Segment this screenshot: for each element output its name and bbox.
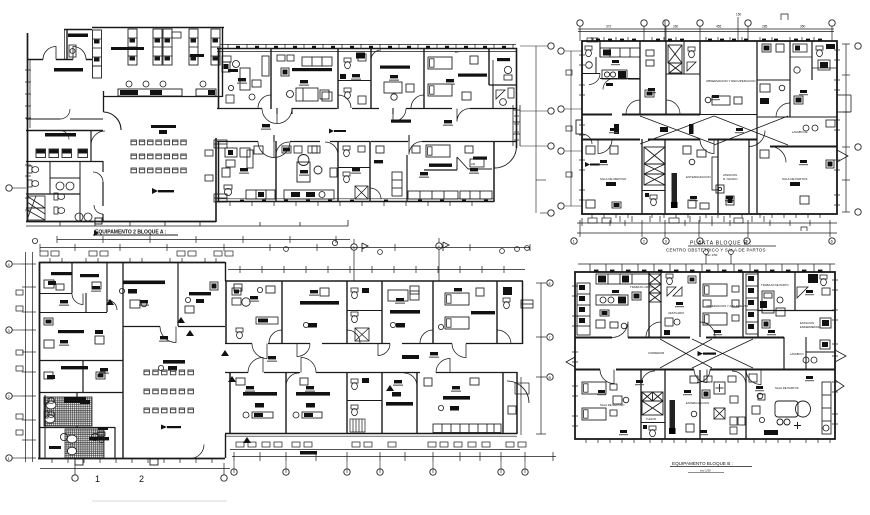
plan A left wall window ticks [25,70,31,210]
plan A small fixture left of lab [69,45,76,57]
global window dashes and wall ticks [178,39,840,458]
upper strip partition x271 [270,49,272,109]
upper strip right wall window ticks [514,116,519,140]
plan B observacion desk [705,96,742,105]
plan B kitchen small black [606,83,613,86]
plan B bottom verticals [642,139,749,214]
plan D bottom wall ticks [586,439,830,443]
lroomC1 bar and desk [243,392,277,418]
plan C upper-left door arcs [72,294,117,311]
plan A hall corner arc [104,112,122,130]
plan B bottom wall tick boxes [582,216,764,226]
plan A left outer wall [28,33,31,222]
plan A toilet 1 [28,166,39,173]
plan B interior vertical x812 [811,41,813,80]
plan D room labels [612,290,619,293]
plan A lab shelving unit 2 [128,29,137,65]
room4 black bar [380,66,410,69]
lroom2 bottom counter with sinks [284,190,334,199]
plan B top wall window ticks [592,37,814,41]
plan A shower hatched [27,196,45,220]
plan A room labels [238,78,246,81]
wing upper strip bottom wall [225,343,523,345]
bath checker floor 1 [44,397,92,426]
plan C upper-left partition x72 [71,262,73,293]
plan C upper-left partition x107 [106,262,108,312]
plan A chairs circles 2 [75,213,92,221]
plan A hall tables row 3 [131,168,186,173]
bath right-mid walls [493,85,517,109]
svg-text:LAVABO D: LAVABO D [790,352,804,356]
enrichment details pass 2 [44,44,834,435]
fixes pass 4 [26,50,754,323]
lroom1 machines [225,148,253,168]
plan B kitchen bottom wall [600,78,640,80]
plan D observacion side tables [703,300,739,307]
plan C lower strip [225,280,556,475]
plan C hall tables row 1 [144,370,193,375]
plan A toilet 2 [28,180,39,187]
plan C hall tables row 2 [144,389,193,394]
upper strip top wall [217,49,517,52]
plan A lab black counter bar [111,47,144,50]
lower strip partitions [286,372,503,434]
ladder band double line [513,105,520,146]
lower strip top wall with openings [217,141,517,143]
lower strip right wall [516,372,518,434]
plan D right lavabo partition [806,337,835,369]
svg-text:R. NACIDO: R. NACIDO [723,177,738,181]
plan C: first floor block (bottom-left) [6,238,530,462]
plan A hall bottom wall [26,221,216,223]
plan C room labels [250,296,258,299]
room6 black bar [497,58,510,61]
plan D kitchen lower counter [596,295,628,316]
plan D trabajo parto extras [762,308,785,328]
corridor small arrow [329,129,346,134]
room3 bathroom fixtures [338,54,371,104]
extra door arcs plan D rooms [646,322,661,337]
plan D corridor arrow [698,351,717,356]
svg-text:2: 2 [139,474,144,484]
plan A hall right window box 2 [214,194,227,202]
plan A hall tables row 1 [131,140,186,145]
plan B esterilizacion cabinet [712,157,724,193]
room4 desk and chair [384,82,414,100]
plan D kitchen inner walls [596,291,649,306]
lroom4 tall cabinet [392,172,402,196]
plan C mid-left bed bar 2 [47,366,88,379]
lroom1 toilet [224,185,232,196]
plan A bath block right wall x103 [102,161,104,222]
plan C grid bubble 4 [436,238,442,281]
wing uroom3 bath stack [347,288,382,341]
plan C bathrooms and bottom of left block [39,330,230,484]
lower strip partition x407 [406,155,408,202]
wing uroom1 fixtures [232,287,278,338]
plan B right dimension line [842,44,850,212]
plan C bottom wall ticks [52,459,212,463]
lroomC3 bath stack [347,378,382,432]
plan A bottom dimension line [57,236,350,243]
plan D sala de reposo beds [582,382,625,420]
plan C top-middle partition x178 [177,262,179,326]
plan A door arc mid-left [91,131,105,145]
right wing grid bubbles [520,43,554,149]
plan B interior vertical x700 [699,41,701,115]
plan B bottom bubbles [571,238,835,244]
plan A corridor jamb marks [274,108,409,142]
plan B room labels [612,60,619,63]
plan D top-half vertical x649 [648,272,650,337]
room2 wall cabinet [302,57,332,66]
plan A left edge bubble [6,185,26,191]
plan A hall tables row 2 [131,154,186,159]
plan D stair shaft hatch [649,274,661,302]
wing corridor bar [402,355,419,359]
plan A walkway line bottom [26,220,348,226]
plan A strip top wall window dashes [236,46,506,49]
plan C hall board bar [158,360,185,371]
svg-text:OBSERVACION Y AISLAMIENTO: OBSERVACION Y AISLAMIENTO [706,304,749,308]
upper strip partition x489 [488,49,490,85]
plan A toilet 3 [54,193,65,200]
plan B top-right bath cluster [790,44,837,73]
room5 bed 2 [428,84,452,96]
svg-text:7: 7 [549,336,551,340]
plan A lab black bar right [190,54,204,57]
wing upper partition x347 [346,281,348,344]
svg-text:350: 350 [800,25,806,29]
room1 fixtures small [222,56,255,103]
plan D closet dark cells [579,288,754,323]
upper strip bottom wall with openings [217,108,517,110]
wing upper partition x497 [496,281,498,344]
plan B bottom bubble numbers [573,239,834,244]
plan B bottom center fixtures [683,146,734,209]
lower strip top wall with openings [225,372,517,374]
plan C wing left room extra [234,284,484,296]
lower strip top arcs [248,358,450,373]
plan A inner corridor band left block [26,118,103,120]
plan A hall blackboard bar [151,125,176,128]
plan D cross box 2 [714,408,725,419]
svg-text:150: 150 [736,13,742,17]
plan D corridor X swings [660,339,753,368]
plan D reposo table [613,396,629,404]
plan A bed bar mid-left room [45,133,76,137]
svg-text:CORREDOR: CORREDOR [648,351,664,355]
plan D top tick band [578,264,835,272]
plan A upper strip right room wall detail [489,49,493,85]
svg-text:ENFERMERAS: ENFERMERAS [800,325,820,329]
lroomC5 bar and cabinets [433,396,501,433]
plan D mid bath fixtures [666,274,696,296]
lower strip left wall [218,141,220,202]
room1 black counter [228,69,238,72]
lower strip mid wall right rooms [424,169,457,171]
plan D kitchen extras [596,292,641,329]
lower strip bottom wall [225,434,517,437]
plan A toilet 4 [54,207,65,214]
plan B left bubble tick boxes [566,70,572,177]
plan B partos room marks [760,150,834,204]
lroomC6 exterior arc [507,377,529,435]
wing uroom4 desk and bar [388,290,420,328]
inter-plan dim end circles and boxes [32,230,529,256]
plan C upper-left room walls [39,293,107,313]
svg-text:285: 285 [762,25,768,29]
room5 black bar [458,74,487,77]
plan D partos misc [749,374,778,435]
corridor black bar [391,120,411,123]
plan A hall arrow [152,188,174,194]
plan D lavabo zone [784,337,830,369]
plan C left dim tick boxes [16,290,23,435]
plan A lower strip right end details [457,105,554,216]
plan D left wall ticks [572,286,578,426]
svg-text:CENTRO OBSTETRICO Y SALA DE PA: CENTRO OBSTETRICO Y SALA DE PARTOS [666,248,766,253]
lroom1 bottom counter [246,190,275,199]
wing upper partition x282 [281,281,283,344]
plan A lab shelving unit 3 [153,29,162,65]
plan B kitchen lower counter [602,70,627,79]
plan A bath inner walls [26,162,80,222]
plan D bottom half [582,322,831,473]
upper strip partition x338 [337,49,339,109]
plan A hall right wall [215,138,217,222]
plan B bottom half rooms [571,131,837,258]
plan B top dimension line [578,14,834,41]
plan B kitchen top wall counter [600,48,640,57]
plan D bottom verticals [641,370,746,439]
lower strip partition x338 [337,141,339,202]
extra door arcs plan C strips [269,330,282,343]
plan A lab bench 2 [196,81,216,96]
plan B reposo room fixtures [586,146,621,208]
svg-text:LAVABO DE: LAVABO DE [792,130,808,134]
plan A lower strip bottom window dashes [240,200,488,202]
lroom5 bottom cabinets [408,191,458,199]
plan C top dimension line [40,244,530,251]
upper strip top wall ticks [220,44,516,49]
lower strip partition x459 [456,157,458,170]
plan D title second underline [688,472,724,474]
room6 bottom wall [489,84,517,86]
plan D corridor walls [575,338,835,370]
plan B corridor bottom wall [582,140,837,147]
plan B right bubbles [855,43,861,215]
lroom5 bed [426,145,450,157]
upper strip right wall [516,48,518,148]
plan B: PLANTA BLOQUE B (top-right) [558,13,861,216]
plan A left block door arcs inner corridor [60,109,70,140]
wing uroom2 long bar [300,301,339,328]
lroom6 black bar [473,157,487,160]
plan B interior vertical x640 [639,41,641,115]
svg-text:OBSERVACION Y RECUPERACION: OBSERVACION Y RECUPERACION [706,79,755,83]
plan A right wing lower strip [57,43,554,243]
plan C wing window boxes right [521,300,533,308]
plan D esterilizacion extras [686,376,710,432]
lower strip bottom ticks [230,202,472,206]
plan B right column fixtures [760,98,835,134]
plan C canopy line [40,468,230,470]
plan A lab right wall [222,28,224,98]
plan D estacion enfermeras [800,318,831,329]
svg-text:esc 1/50: esc 1/50 [700,469,711,473]
svg-text:VESTUARIO: VESTUARIO [668,311,685,315]
plan A sink squares row [36,149,88,158]
svg-text:SALA DE REPOSO: SALA DE REPOSO [600,177,627,181]
plan D top-right bath [758,272,835,311]
plan C hall door arc bottom [190,445,204,459]
plan D kitchen counters [596,274,649,284]
lroom2 top fixtures [282,146,317,153]
plan B right column extra [760,44,803,104]
svg-text:PLANTA BLOQUE B :: PLANTA BLOQUE B : [690,241,752,247]
plan A lab shelving unit 5 [189,29,198,65]
plan B corridor top wall [582,114,757,116]
plan D right exterior door [835,350,846,392]
lroom4 black bar [374,160,383,163]
lroomC4 bar [386,385,413,406]
wing upper right wall [522,281,524,344]
wing upper strip top wall [225,280,523,282]
plan B outer walls [582,41,837,214]
plan A bottom wall pilaster ticks [60,218,200,226]
plan B elevator shaft stack [644,147,665,185]
plan C long bottom dimension line [232,452,556,461]
plan C hall tables row 3 [144,408,193,413]
plan B interior vertical x757 [756,41,758,214]
bath right-mid fixtures [496,88,514,105]
plan B despensa marks [645,50,654,97]
plan D: EQUIPAMENTO BLOQUE B (bottom-right) [566,250,846,439]
wing corridor door arcs [252,344,466,359]
plan B top-left toilet room [582,46,600,85]
wing upper partition x433 [432,281,434,344]
extra door arcs plan A lower strip interior [276,142,289,155]
plan C left block inner west wall [44,395,46,458]
plan A black bar cabinet top-left [68,34,88,38]
plan A lab shelving unit 4 [163,29,172,65]
plan C grid bubble 3 [351,239,357,281]
link arc upper strip to end room [495,146,517,168]
reception diagonal desk [457,157,492,169]
plan D left closet cells [577,283,590,335]
room2 upper fixtures [277,55,294,61]
lroom3 shower diagonal [355,186,368,199]
lower strip partition x370 [369,141,371,202]
plan A bed bar upper-left room [54,68,83,72]
plan C left block desks [44,280,105,379]
room1 exam table [233,61,251,91]
plan D elevator shaft [642,392,663,415]
plan D top grid stubs [704,250,734,264]
plan A bathroom top wall [26,161,103,163]
sheet ghost smudge bottom [92,500,227,502]
plan B bottom door arcs [598,131,786,163]
plan C lower strip extras [236,378,516,414]
plan A lower room extras [222,146,473,177]
plan C top-middle long bar [119,281,165,294]
plan B title line 1 [688,241,776,247]
plan D operating table [775,401,811,425]
svg-text:260: 260 [673,25,679,29]
svg-text:EL: EL [455,50,459,54]
plan D title [670,461,752,473]
plan C hall left wall x123 [122,262,124,330]
plan B kitchen door arc [603,79,614,90]
plan B bottom wall ticks [592,214,820,218]
plan D vestuario fixtures [664,318,680,335]
plan A bath mid wall [26,193,80,195]
room1 side cabinet [262,56,269,76]
svg-text:1: 1 [95,474,100,484]
scattered room label smudges [59,60,814,435]
plan C left block outer walls [38,262,225,459]
svg-text:372: 372 [606,25,612,29]
upper strip partition x424 [423,49,425,109]
lower strip bottom wall [217,199,494,202]
final touches [45,70,724,473]
plan B grid line marker 7.5 [587,38,598,42]
plan D top-half vertical x743 [742,272,744,337]
plan B kitchen inner wall [600,41,640,79]
plan A wall y130 left block [26,130,103,132]
plan C left block right wall [225,262,227,458]
plan A hall small marks [205,150,213,181]
room2 black counter bar [292,68,332,71]
svg-text:SALA DE PARTOS: SALA DE PARTOS [775,386,799,390]
plan B mid toilet [666,41,700,74]
plan C top wall ticks [50,258,216,263]
plan C upper-left bed bars [48,272,99,285]
plan B corridor dark bars [614,124,694,134]
extra door arcs plan B rooms [626,100,640,114]
plan C dark bar under dim boxes [300,451,317,455]
lower strip door arcs from corridor [258,142,422,158]
wing upper partition x382 [381,281,383,344]
svg-text:8: 8 [549,282,551,286]
plan D closets column [746,274,758,334]
lroomC2 bar and desk [293,392,330,418]
svg-text:TRABAJO DE PARTO: TRABAJO DE PARTO [761,283,789,287]
plan D small boxes center [704,376,745,434]
svg-text:ESTERILIZACION: ESTERILIZACION [686,175,711,179]
plan D left exterior door [566,357,575,367]
upper strip door arcs to corridor [262,109,470,124]
plan A bath door arcs [93,172,103,214]
plan B top bubble row [577,20,835,26]
plan A hall right window box 1 [214,140,227,148]
plan A wall x91 vertical [90,130,92,161]
plan C bottom wall pilasters [75,459,158,465]
plan A: EQUIPAMENTO BLOQUE A (top-left block) [25,28,348,227]
plan D top-half vertical x661 [660,272,662,337]
plan A room5 extra [462,56,478,100]
plan A hall left wall [103,91,105,112]
plan D registro dark bar [669,400,676,434]
plan C wall under top-middle rooms [123,327,225,343]
lower strip partition x491 [493,141,495,202]
plan D observacion beds [703,284,749,325]
plan A room2 extra [281,68,332,101]
plan B top wall window dashes [596,39,822,41]
plan B right column walls [757,80,837,117]
plan B bottom dimension line [577,220,837,237]
